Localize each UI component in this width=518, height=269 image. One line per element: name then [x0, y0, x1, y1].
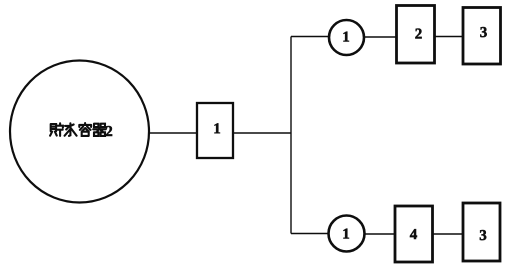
- box 1: [197, 103, 233, 158]
- 水: [65, 123, 77, 136]
- box 2: [397, 6, 435, 64]
- svg-text:1: 1: [342, 29, 350, 45]
- wire box1 to junction: [233, 132, 291, 134]
- svg-text:1: 1: [342, 226, 350, 242]
- svg-text:3: 3: [479, 228, 487, 244]
- wire box4 to box3 bottom: [433, 233, 464, 235]
- meter circle 1 (top): [329, 20, 364, 55]
- 容: [79, 123, 91, 136]
- tank T1 (storage vessel): [10, 61, 149, 203]
- wire bottom branch horizontal: [291, 233, 329, 235]
- meter circle 1 (bottom): [329, 216, 365, 252]
- wire tank to box1: [148, 132, 197, 134]
- box 3 (top): [463, 8, 501, 65]
- svg-text:1: 1: [213, 121, 221, 137]
- wire top meter to box2: [364, 36, 397, 38]
- 贮: [50, 123, 63, 136]
- svg-text:2: 2: [105, 124, 113, 140]
- label 贮水容器2 (tank label): [50, 123, 106, 136]
- wire junction vertical: [290, 37, 292, 234]
- box 3 (bottom): [463, 203, 500, 261]
- svg-text:4: 4: [410, 227, 418, 243]
- box 4: [395, 206, 433, 262]
- wire bottom meter to box4: [365, 233, 396, 235]
- svg-text:3: 3: [480, 25, 488, 41]
- wire box2 to box3 top: [435, 36, 464, 38]
- wire top branch horizontal: [291, 36, 330, 38]
- svg-text:2: 2: [415, 26, 423, 42]
- 器: [93, 124, 106, 136]
